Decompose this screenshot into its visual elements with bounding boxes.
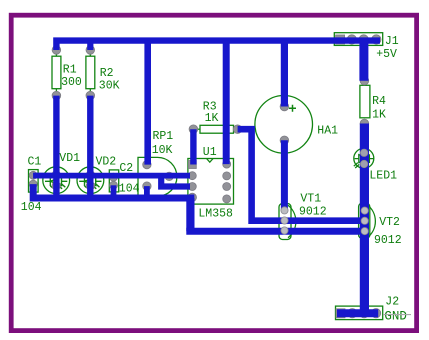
pads C1 bbox=[29, 171, 37, 188]
svg-text:9012: 9012 bbox=[374, 234, 402, 247]
pads VT2 bbox=[361, 207, 368, 235]
wire C2 bottom stub bbox=[111, 185, 117, 198]
wire rail to RP1 top bbox=[144, 41, 151, 165]
svg-text:LM358: LM358 bbox=[198, 207, 233, 220]
pads R2 bbox=[86, 46, 95, 100]
buzzer HA1 bbox=[255, 96, 313, 154]
svg-text:+5V: +5V bbox=[376, 48, 397, 61]
resistor R2 bbox=[86, 50, 95, 96]
transistor VT1 outline bbox=[279, 204, 296, 240]
pads R4 bbox=[360, 76, 369, 127]
svg-text:10K: 10K bbox=[152, 144, 173, 157]
wire VD-C2 net to RP1 wiper and U1 pin2 bbox=[33, 173, 190, 179]
pads J1 bbox=[336, 35, 381, 44]
wire R3 right to VT1 VT2 middle bbox=[238, 129, 365, 221]
svg-text:HA1: HA1 bbox=[317, 125, 338, 138]
pads VT1 bbox=[281, 207, 288, 234]
svg-text:VT1: VT1 bbox=[300, 193, 321, 206]
wire R1 to VD1 to bottom net bbox=[53, 96, 59, 198]
pads RP1 bbox=[143, 160, 174, 190]
wire R3 left to U1 pin1 bbox=[190, 129, 196, 164]
op-amp U1 outline bbox=[188, 159, 234, 205]
pads HA1 bbox=[280, 102, 289, 144]
pads VD1 bbox=[52, 171, 60, 190]
resistor R1 bbox=[52, 50, 61, 96]
svg-text:U1: U1 bbox=[203, 146, 217, 159]
svg-text:104: 104 bbox=[21, 201, 42, 214]
capacitor C1 bbox=[29, 170, 39, 193]
svg-text:9012: 9012 bbox=[299, 205, 327, 218]
LED LED1 bbox=[354, 148, 374, 168]
resistor R4 bbox=[360, 85, 370, 118]
wire HA1 bottom to VT1 top bbox=[281, 140, 288, 210]
svg-text:VD2: VD2 bbox=[96, 155, 117, 168]
svg-text:R1: R1 bbox=[63, 63, 77, 76]
svg-text:RP1: RP1 bbox=[153, 130, 174, 143]
svg-text:1K: 1K bbox=[205, 112, 219, 125]
diode VD1 bbox=[43, 167, 70, 194]
pads R3 bbox=[189, 125, 242, 134]
svg-text:R4: R4 bbox=[372, 95, 386, 108]
wire bottom ground net C1-U1-VT2 bbox=[33, 184, 194, 198]
svg-text:J2: J2 bbox=[385, 295, 399, 308]
potentiometer RP1 bbox=[138, 157, 177, 196]
wire J2 bar bbox=[337, 309, 378, 317]
wire rail to HA1 top bbox=[281, 41, 288, 107]
svg-text:104: 104 bbox=[119, 183, 140, 196]
wire R2 to VD2 to bottom net bbox=[87, 96, 93, 198]
pads VD2 bbox=[86, 171, 94, 190]
svg-text:30K: 30K bbox=[99, 79, 120, 92]
pads C2 bbox=[110, 173, 118, 189]
wire R4 LED1 VT2 to J2 bbox=[360, 124, 369, 314]
connector J1 outline bbox=[334, 33, 382, 46]
pads LED1 bbox=[360, 149, 367, 168]
wire RP1 bottom stub bbox=[144, 186, 150, 198]
svg-text:300: 300 bbox=[61, 76, 82, 89]
svg-text:C2: C2 bbox=[119, 162, 133, 175]
svg-text:GND: GND bbox=[384, 309, 407, 323]
pads R1 bbox=[52, 46, 61, 100]
transistor VT2 outline bbox=[359, 203, 376, 238]
svg-text:C1: C1 bbox=[28, 156, 42, 169]
svg-text:VD1: VD1 bbox=[59, 152, 80, 165]
wire C1 top to VD1 bbox=[33, 173, 56, 179]
svg-text:VT2: VT2 bbox=[379, 216, 400, 229]
capacitor C2 bbox=[109, 170, 118, 192]
wire J1 to R4 bbox=[359, 40, 368, 81]
svg-text:LED1: LED1 bbox=[369, 170, 397, 183]
connector J2 outline bbox=[336, 306, 383, 320]
svg-text:J1: J1 bbox=[385, 35, 399, 48]
pads U1 bbox=[188, 160, 231, 203]
wire rail to U1 pin8 bbox=[223, 41, 230, 165]
resistor R3 bbox=[193, 125, 237, 133]
svg-text:1K: 1K bbox=[372, 108, 386, 121]
diode VD2 bbox=[77, 167, 104, 194]
pads J2 bbox=[336, 309, 381, 318]
wire step to U1 pin3 bbox=[161, 176, 190, 187]
wire rail to R2 bbox=[87, 41, 93, 50]
svg-text:R2: R2 bbox=[100, 67, 114, 80]
wire +5V rail bbox=[56, 41, 380, 50]
